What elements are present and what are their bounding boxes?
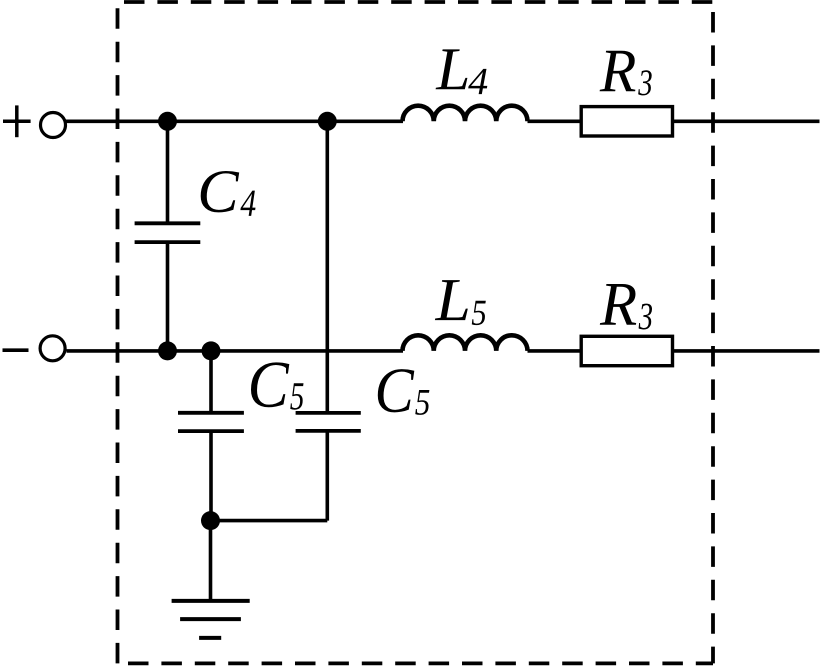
terminal circle (+ input) [41, 113, 66, 138]
inductor L4 [403, 106, 528, 122]
wire: right C5 branch lower segment [325, 431, 329, 521]
wire: top rail from R3 to right edge [673, 120, 820, 124]
junction on bottom rail at C4 [158, 341, 177, 360]
dashed enclosure bottom edge [118, 662, 714, 666]
wire: between L4 and R3 [528, 120, 582, 124]
dashed enclosure left edge [116, 2, 120, 663]
label C5 (left) [251, 362, 304, 409]
wire: between L5 and R3 [528, 349, 582, 353]
wire: bottom rail from R3 to right edge [673, 349, 820, 353]
dashed enclosure right edge [711, 2, 715, 663]
junction on bottom rail at left C5 [202, 341, 221, 360]
terminal - polarity mark [3, 348, 29, 352]
wire: top rail from + terminal to inductor L4 [66, 120, 404, 124]
junction on top rail at right C5 branch [318, 112, 337, 131]
terminal + polarity mark [3, 105, 31, 137]
wire: C4 branch upper segment [166, 121, 170, 223]
junction on top rail at C4 [158, 112, 177, 131]
label L4 [436, 49, 488, 94]
label R3 (bottom) [600, 284, 652, 330]
capacitor C4 [135, 223, 201, 242]
capacitor C5 (left) [178, 413, 244, 431]
label L5 [435, 280, 486, 325]
label R3 (top) [600, 51, 652, 96]
capacitor C5 (right) [296, 413, 361, 431]
label C5 (right) [378, 369, 430, 415]
ground [172, 601, 250, 638]
label C4 [201, 171, 256, 216]
resistor R3 (top) [581, 107, 672, 136]
wire: C4 branch lower segment [166, 242, 170, 351]
inductor L5 [403, 335, 528, 351]
wire: ground stem [209, 521, 213, 601]
wire: bottom rail from - terminal to inductor L5 [67, 349, 404, 353]
wire: left C5 branch upper segment [209, 351, 213, 413]
wire: horizontal link to ground node [211, 519, 328, 523]
wire: right C5 branch from top rail [325, 121, 329, 413]
resistor R3 (bottom) [581, 336, 672, 365]
terminal circle (- input) [40, 336, 65, 361]
dashed enclosure top edge [118, 0, 714, 4]
wire: left C5 branch lower segment [209, 431, 213, 520]
junction at ground node [201, 511, 220, 530]
